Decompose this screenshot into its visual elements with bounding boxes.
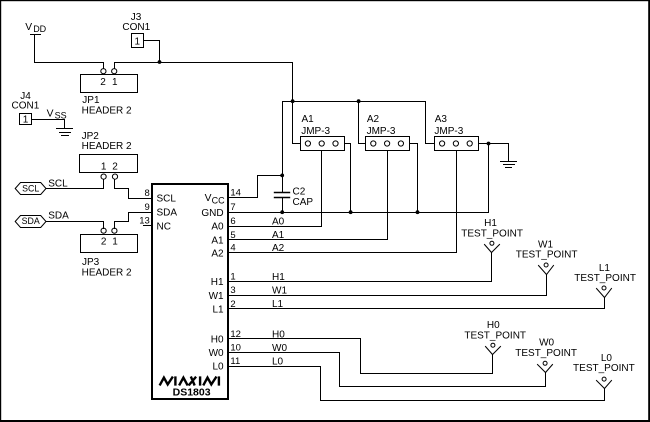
svg-text:JMP-3: JMP-3 [301,126,330,137]
svg-text:14: 14 [230,187,241,198]
svg-text:A2: A2 [367,114,380,125]
svg-text:2: 2 [112,162,118,173]
svg-text:TEST_POINT: TEST_POINT [574,273,636,284]
svg-text:4: 4 [230,243,235,254]
svg-text:SCL: SCL [22,183,39,193]
svg-text:A1: A1 [272,230,285,241]
svg-text:A2: A2 [211,248,224,259]
svg-text:11: 11 [230,356,240,367]
svg-text:TEST_POINT: TEST_POINT [464,330,526,341]
svg-text:1: 1 [112,77,118,88]
svg-text:CAP: CAP [293,197,314,208]
svg-text:CON1: CON1 [12,101,40,112]
svg-text:13: 13 [139,216,150,227]
svg-text:DS1803: DS1803 [173,387,211,399]
svg-text:1: 1 [135,37,141,48]
svg-text:3: 3 [230,285,235,296]
svg-text:2: 2 [100,77,106,88]
svg-text:SCL: SCL [48,178,68,189]
svg-text:HEADER 2: HEADER 2 [82,106,132,117]
svg-text:L0: L0 [601,353,613,364]
svg-text:CC: CC [212,195,225,205]
svg-text:TEST_POINT: TEST_POINT [573,363,635,374]
svg-text:V: V [47,109,54,120]
svg-text:A3: A3 [435,114,448,125]
svg-text:H0: H0 [211,335,224,346]
svg-text:HEADER 2: HEADER 2 [82,267,132,278]
svg-text:TEST_POINT: TEST_POINT [515,348,577,359]
svg-text:C2: C2 [293,186,306,197]
svg-text:W0: W0 [209,348,224,359]
svg-text:8: 8 [145,188,150,199]
svg-text:CON1: CON1 [122,22,150,33]
svg-text:L0: L0 [272,356,284,367]
svg-text:NC: NC [157,221,171,232]
svg-text:SDA: SDA [157,208,178,219]
svg-text:JMP-3: JMP-3 [367,126,396,137]
svg-text:HEADER 2: HEADER 2 [82,141,132,152]
svg-text:W1: W1 [272,286,287,297]
svg-text:SDA: SDA [48,211,69,222]
svg-text:2: 2 [101,236,107,247]
svg-text:10: 10 [230,343,241,354]
svg-text:5: 5 [230,230,235,241]
svg-text:SCL: SCL [157,194,177,205]
svg-text:L0: L0 [212,362,224,373]
svg-text:A0: A0 [272,216,285,227]
svg-text:GND: GND [201,208,223,219]
svg-text:1: 1 [101,162,107,173]
svg-text:JP3: JP3 [82,257,100,268]
svg-text:6: 6 [230,216,235,227]
svg-text:TEST_POINT: TEST_POINT [461,228,523,239]
svg-text:V: V [205,193,212,204]
svg-text:A0: A0 [211,222,224,233]
svg-text:V: V [25,22,32,33]
svg-text:L1: L1 [212,305,224,316]
svg-text:7: 7 [230,202,235,213]
svg-text:JP1: JP1 [82,95,100,106]
svg-text:W1: W1 [209,291,224,302]
svg-text:1: 1 [112,236,118,247]
svg-text:DD: DD [33,24,46,34]
svg-text:A2: A2 [272,243,285,254]
svg-text:TEST_POINT: TEST_POINT [516,249,578,260]
svg-text:JMP-3: JMP-3 [434,126,463,137]
svg-text:A1: A1 [302,114,315,125]
svg-text:H1: H1 [211,277,224,288]
svg-text:1: 1 [230,272,235,283]
svg-text:SDA: SDA [22,216,40,226]
svg-text:A1: A1 [211,235,224,246]
svg-text:1: 1 [23,115,29,126]
svg-text:9: 9 [145,202,150,213]
